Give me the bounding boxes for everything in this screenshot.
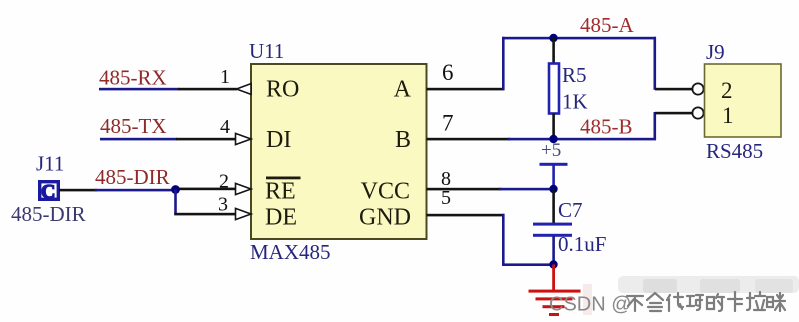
- svg-text:6: 6: [442, 60, 454, 85]
- pin 3 triangle (input): [236, 208, 252, 219]
- wire 485-A top run: [502, 37, 656, 40]
- wire pin8 (VCC) lead: [427, 188, 502, 191]
- wire pin5 (GND): [427, 214, 505, 217]
- resistor R5 body: [549, 64, 559, 114]
- wire +5 node down to C7: [552, 189, 555, 224]
- wire pin1 lead: [178, 88, 237, 91]
- wire 485-B right riser: [654, 112, 657, 140]
- svg-text:0.1uF: 0.1uF: [558, 232, 606, 256]
- svg-text:1: 1: [220, 66, 230, 88]
- char hui: [647, 293, 663, 311]
- ground bar 4: [549, 313, 559, 316]
- wire C7 bottom lead: [552, 236, 555, 264]
- wire corner up (485-A left riser): [502, 37, 505, 90]
- svg-text:U11: U11: [249, 39, 284, 63]
- char bu: [627, 296, 643, 311]
- wire 485-RX net: [99, 88, 179, 91]
- svg-text:485-DIR: 485-DIR: [11, 202, 86, 226]
- wire GND run to junction: [502, 263, 554, 266]
- junction dot VCC/+5: [549, 185, 557, 193]
- wire R5 bottom lead: [552, 114, 555, 140]
- pin 4 triangle (input): [236, 133, 252, 144]
- wire 485-B run: [508, 138, 656, 141]
- IC U11 body: [251, 64, 427, 239]
- svg-text:DI: DI: [266, 127, 291, 153]
- wire junction down: [174, 190, 177, 215]
- svg-text:4: 4: [220, 116, 230, 138]
- junction dot GND: [549, 260, 557, 268]
- svg-text:+5: +5: [541, 140, 561, 161]
- svg-text:2: 2: [721, 78, 733, 103]
- svg-text:B: B: [395, 127, 411, 153]
- svg-text:RO: RO: [266, 77, 299, 103]
- char ka: [728, 292, 742, 311]
- svg-text:CSDN @: CSDN @: [549, 294, 632, 316]
- svg-text:J11: J11: [36, 152, 64, 176]
- wire to J9 pin1: [655, 112, 692, 115]
- svg-text:7: 7: [442, 111, 454, 136]
- power port +5 bar: [540, 163, 568, 166]
- power port +5 stem: [552, 164, 555, 189]
- char ma: [687, 295, 703, 310]
- ground stem: [552, 265, 555, 292]
- wire J11 to junction: [95, 189, 176, 192]
- wire pin4 lead: [176, 138, 236, 141]
- char la: [747, 292, 765, 310]
- svg-text:DE: DE: [265, 205, 297, 231]
- svg-text:MAX485: MAX485: [250, 240, 331, 264]
- junction dot DIR: [171, 185, 180, 194]
- connector J9 body: [705, 64, 782, 137]
- char de: [707, 294, 724, 311]
- ground bar 2: [536, 297, 573, 300]
- J9 pin2 circle: [692, 83, 703, 94]
- svg-text:1: 1: [722, 103, 734, 128]
- J9 pin1 circle: [692, 107, 703, 118]
- wire junction to pin2: [174, 188, 237, 191]
- svg-text:485-RX: 485-RX: [99, 66, 167, 90]
- watermark blur blocks: [583, 276, 799, 315]
- junction dot 485-A / R5 top: [549, 34, 557, 42]
- capacitor C7 top plate: [533, 223, 572, 226]
- ground bar 1: [529, 290, 581, 293]
- svg-text:GND: GND: [359, 205, 411, 231]
- wire to J9 pin2: [655, 88, 692, 91]
- svg-text:C: C: [41, 181, 55, 203]
- svg-text:3: 3: [218, 194, 228, 216]
- capacitor C7 bottom plate: [533, 234, 572, 237]
- wire 485-A right riser: [654, 37, 657, 90]
- svg-text:RE: RE: [265, 179, 296, 205]
- svg-text:VCC: VCC: [361, 179, 410, 205]
- wire pin6 to corner: [427, 88, 505, 91]
- svg-text:485-TX: 485-TX: [100, 114, 167, 138]
- char mi: [767, 293, 785, 311]
- svg-text:485-A: 485-A: [580, 13, 634, 37]
- svg-text:485-B: 485-B: [580, 115, 633, 139]
- pin 2 triangle (input): [236, 183, 252, 194]
- char dai: [667, 293, 683, 311]
- wire J11 pin lead: [59, 189, 97, 192]
- ground bar 3: [543, 305, 565, 308]
- svg-text:A: A: [394, 77, 412, 103]
- wire R5 top lead: [552, 38, 555, 64]
- svg-text:J9: J9: [706, 40, 725, 64]
- wire pin8 to +5 node: [499, 188, 554, 191]
- svg-text:485-DIR: 485-DIR: [95, 165, 170, 189]
- svg-text:R5: R5: [562, 63, 587, 87]
- wire pin7 lead: [427, 138, 511, 141]
- connector J11 body: [40, 182, 59, 200]
- watermark CJK glyph strokes: [627, 292, 785, 311]
- svg-text:1K: 1K: [562, 90, 588, 114]
- wire GND riser down: [502, 214, 505, 266]
- junction dot 485-B / R5 bottom: [549, 135, 557, 143]
- wire to pin3: [174, 213, 237, 216]
- pin 1 triangle (output): [237, 84, 252, 95]
- wire 485-TX net: [100, 138, 177, 141]
- RE overline: [266, 177, 301, 180]
- svg-text:C7: C7: [558, 198, 583, 222]
- svg-text:RS485: RS485: [706, 139, 763, 163]
